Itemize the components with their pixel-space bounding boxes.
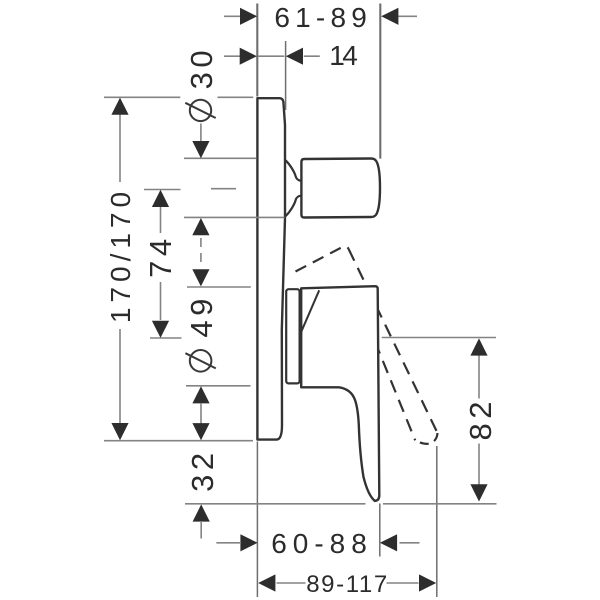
svg-text:170/170: 170/170 [105, 187, 136, 323]
link line between dia49/32 arrows [200, 403, 202, 424]
arrow 82 bottom [470, 484, 487, 501]
handle knob [301, 159, 380, 218]
arrow 74 bottom [152, 321, 169, 338]
tick y=217.4 knob bottom [184, 216, 285, 218]
arrow 170/170 top [111, 98, 128, 115]
dimension 170/170 line [119, 114, 121, 182]
svg-text:89-117: 89-117 [306, 571, 389, 598]
arrow dia30 top (down) [192, 141, 209, 158]
svg-text:82: 82 [463, 397, 498, 440]
extension line dashed-lever tip (x=436.8) [436, 446, 438, 597]
arrow 32 top (down) [192, 423, 209, 440]
arrow 74 top [152, 190, 169, 207]
dimension 14 line [224, 55, 240, 57]
dashed open lever tip arc [417, 433, 437, 444]
tick y=189.5 knob centerline [144, 189, 181, 191]
dia30 leader line [200, 124, 202, 142]
dia symbol 49 [190, 350, 212, 372]
dimension 89-117 line [277, 582, 306, 584]
dimension 60-88 line [216, 542, 240, 544]
handle cone lower [286, 196, 301, 216]
arrow dia49 top (down) [192, 269, 209, 286]
extension line knob right (x=380.6) [379, 4, 381, 159]
dashed open lever right edge [349, 249, 438, 433]
arrow 32 bottom (up) [193, 504, 210, 521]
dashed open lever top edge [296, 246, 349, 271]
arrow 82 top [470, 338, 487, 355]
svg-text:61-89: 61-89 [274, 2, 372, 33]
svg-text:74: 74 [143, 234, 178, 277]
arrow dia30 bottom (up) [192, 218, 209, 235]
tick y=503.8 lever tip (82 bottom) [185, 503, 366, 505]
extension line plate face (x=285.6) [285, 41, 287, 110]
valve body with lever (closed) [301, 286, 379, 501]
escutcheon disc (sleeve, side view) [286, 289, 299, 383]
arrow dia49 bottom (up) [192, 386, 209, 403]
tick y=97 left of plate [104, 96, 180, 98]
lever silhouette diagonal [301, 290, 319, 333]
dashed open lever left edge [367, 322, 415, 440]
dimension 61-89 line [224, 15, 241, 17]
svg-text:30: 30 [184, 46, 219, 89]
tick y=337.5 lever pivot (82 top) [382, 337, 496, 339]
wall plate [257, 98, 285, 439]
dimension 74 line [160, 207, 162, 234]
dashed link between dia30 and dia49 arrows [200, 238, 202, 264]
tick y=158.3 knob top [184, 157, 257, 159]
extension line body left bottom (x=257.4) [256, 442, 258, 598]
svg-text:60-88: 60-88 [271, 528, 373, 559]
extension line left (x=257) [256, 4, 258, 97]
32 bottom stub [200, 521, 202, 539]
arrow 14 right [286, 48, 303, 65]
tick y=385.8 body bottom [186, 385, 251, 387]
arrow 170/170 bottom [111, 423, 128, 440]
dimension 82 line [478, 355, 480, 399]
arrow 14 left [240, 48, 257, 65]
dia symbol 30 [190, 100, 211, 121]
arrow 60-88 right [380, 534, 397, 551]
svg-text:14: 14 [329, 40, 357, 71]
svg-text:32: 32 [185, 448, 220, 491]
arrow 61-89 left [240, 8, 257, 25]
extension line lever front bottom (x=379.8) [379, 504, 381, 557]
tick y=440.7 plate bottom [104, 440, 253, 442]
arrow 89-117 right [419, 574, 436, 591]
arrow 61-89 right [381, 8, 398, 25]
handle cone upper [286, 160, 301, 180]
tick y=287 body top [187, 286, 251, 288]
svg-text:49: 49 [184, 294, 219, 337]
tick y=338 body centerline [150, 337, 182, 339]
arrow 60-88 left [240, 534, 257, 551]
arrow 89-117 left [258, 574, 275, 591]
